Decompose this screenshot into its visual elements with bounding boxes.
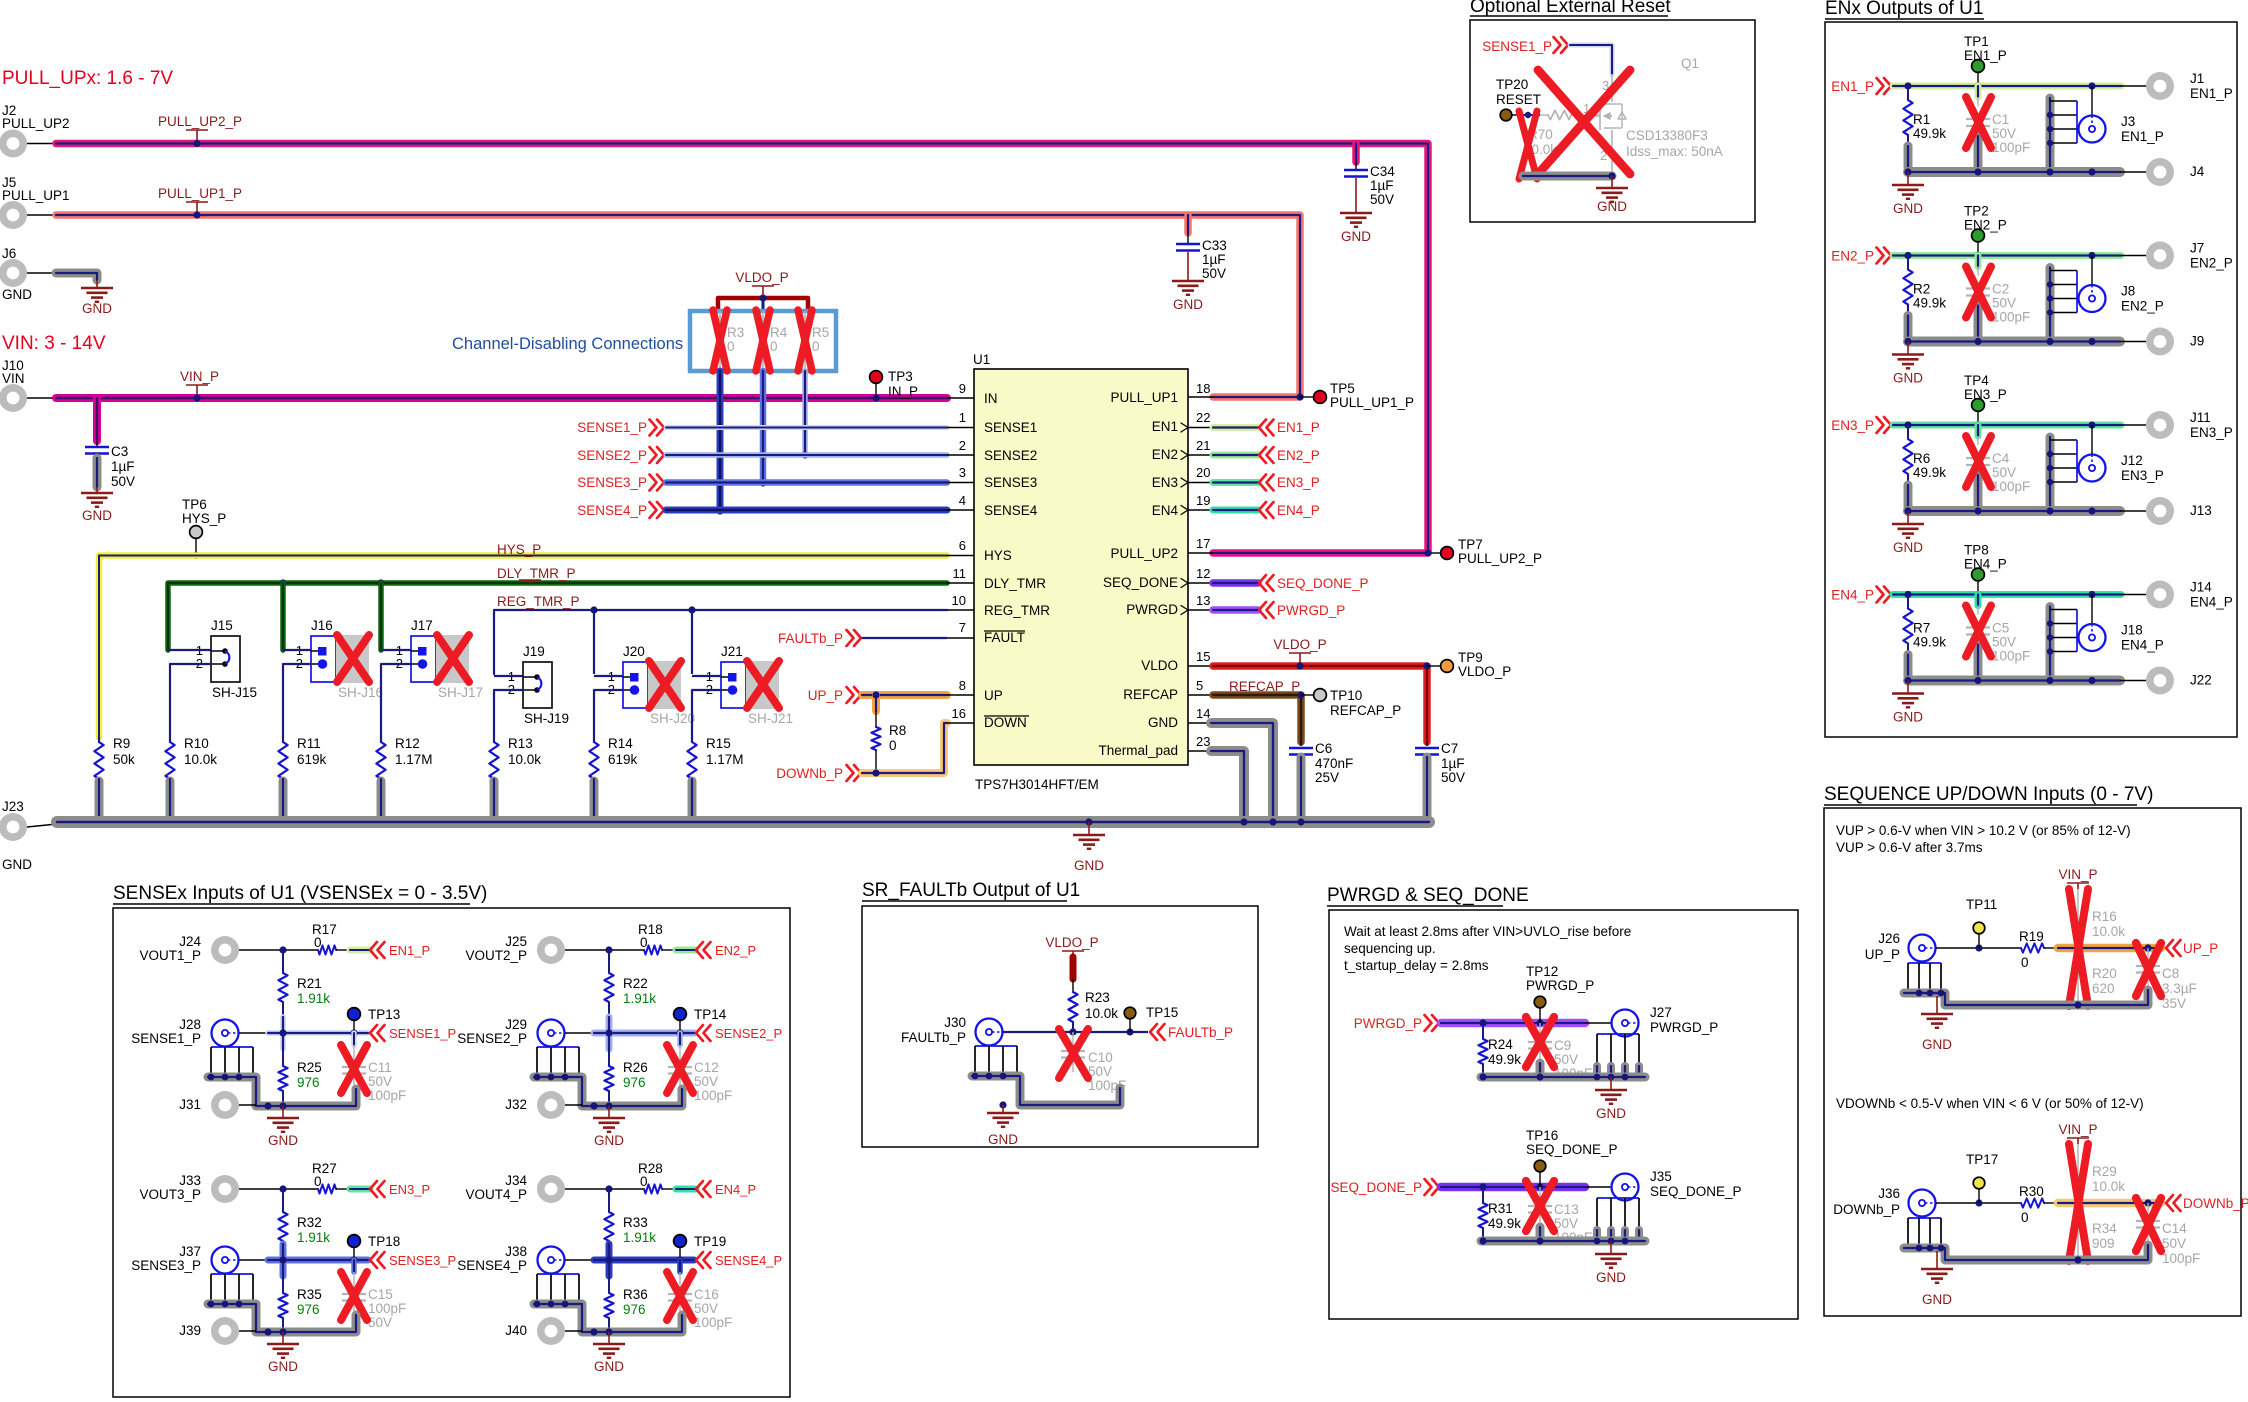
jack J18	[2091, 595, 2093, 625]
svg-text:J22: J22	[2190, 673, 2212, 688]
svg-text:SENSE1_P: SENSE1_P	[1482, 39, 1552, 54]
svg-text:IN_P: IN_P	[888, 384, 918, 399]
svg-text:R14: R14	[608, 736, 633, 751]
svg-text:J7: J7	[2190, 241, 2204, 256]
svg-text:PULL_UP1_P: PULL_UP1_P	[158, 186, 242, 201]
ground symbol on bus	[1088, 822, 1090, 835]
wire SENSE1_P to pin 1	[666, 425, 947, 430]
svg-text:C7: C7	[1441, 741, 1458, 756]
svg-text:R9: R9	[113, 736, 130, 751]
svg-text:3.3µF: 3.3µF	[2162, 981, 2197, 996]
svg-text:J30: J30	[944, 1015, 966, 1030]
svg-text:GND: GND	[1596, 1106, 1626, 1121]
capacitor C4 (not installed)	[1975, 425, 1982, 436]
svg-text:EN3_P: EN3_P	[389, 1182, 430, 1197]
wire J19 pin1 lead	[494, 675, 523, 677]
wire SENSE4_P to pin 4	[666, 507, 947, 514]
wire R4 to SENSE3 node	[760, 371, 767, 483]
svg-text:SENSEx Inputs of U1 (VSENSEx =: SENSEx Inputs of U1 (VSENSEx = 0 - 3.5V)	[113, 883, 487, 904]
wire SENSE4_P node	[565, 1259, 594, 1261]
wire UP_P highlight	[2058, 944, 2161, 953]
svg-text:EN1_P: EN1_P	[389, 943, 430, 958]
wire SENSE2_P node	[565, 1032, 594, 1034]
svg-text:R34: R34	[2092, 1221, 2117, 1236]
svg-text:GND: GND	[1596, 1270, 1626, 1285]
cross mark over C1	[1966, 97, 1991, 148]
test point TP15	[1124, 1007, 1136, 1019]
svg-text:PULL_UP2: PULL_UP2	[2, 116, 70, 131]
wire PWRGD_P row	[1441, 1019, 1585, 1028]
svg-text:SENSE1: SENSE1	[984, 420, 1037, 435]
capacitor C8 (not installed)	[2147, 948, 2149, 964]
svg-text:TP14: TP14	[694, 1007, 727, 1022]
svg-text:C10: C10	[1088, 1050, 1113, 1065]
svg-text:1µF: 1µF	[1370, 178, 1394, 193]
wire J16 pin1 lead	[283, 649, 311, 651]
svg-text:50V: 50V	[2162, 1236, 2186, 1251]
svg-text:SEQ_DONE_P: SEQ_DONE_P	[1650, 1184, 1742, 1199]
svg-text:SENSE2: SENSE2	[984, 448, 1037, 463]
node DLY_TMR to J17	[377, 579, 384, 586]
ground symbol UP_P row	[1936, 996, 1938, 1014]
svg-text:HYS_P: HYS_P	[497, 542, 541, 557]
cross mark over C14	[2136, 1198, 2161, 1251]
wire R12 to ground bus	[377, 781, 386, 818]
U1 DOWN overline	[984, 715, 1029, 717]
resistor R32	[282, 1189, 284, 1212]
svg-text:R2: R2	[1913, 282, 1930, 297]
wire J15 pin1 lead	[168, 649, 211, 651]
svg-text:EN2_P: EN2_P	[715, 943, 756, 958]
svg-text:1µF: 1µF	[1441, 756, 1465, 771]
wire VIN_P	[56, 394, 947, 402]
capacitor C14 (not installed)	[2147, 1203, 2149, 1219]
svg-text:GND: GND	[1597, 199, 1627, 214]
wire EN2_P highlight	[676, 947, 696, 954]
svg-text:25V: 25V	[1315, 770, 1339, 785]
svg-text:0: 0	[2021, 1210, 2029, 1225]
wire SENSE3_P node	[239, 1259, 268, 1261]
wire VOUT2_P output node	[565, 949, 644, 951]
svg-text:TP10: TP10	[1330, 688, 1362, 703]
svg-text:SR_FAULTb Output of U1: SR_FAULTb Output of U1	[862, 880, 1080, 901]
wire DOWNb_P node	[1936, 1202, 2021, 1204]
svg-text:SH-J15: SH-J15	[212, 685, 257, 700]
row ground bus SEQ_DONE_P	[1481, 1237, 1645, 1246]
svg-text:PWRGD_P: PWRGD_P	[1354, 1016, 1422, 1031]
resistor R21	[282, 950, 284, 973]
svg-text:EN2_P: EN2_P	[2121, 299, 2164, 314]
svg-text:100pF: 100pF	[1992, 310, 2030, 325]
wire PWRGD_P from pin 13	[1188, 609, 1213, 611]
ground symbol FAULTb cell	[1002, 1105, 1004, 1113]
svg-text:100pF: 100pF	[694, 1088, 732, 1103]
wire VLDO_P stub to R23	[1070, 957, 1077, 979]
ground for C33	[1172, 280, 1204, 283]
capacitor C16 (not installed)	[677, 1260, 683, 1272]
svg-text:J21: J21	[721, 644, 743, 659]
wire R10 to ground bus	[166, 781, 175, 818]
wire R9 to ground bus	[95, 781, 104, 818]
svg-text:TP6: TP6	[182, 497, 207, 512]
wire J21 pin2 to R15	[692, 690, 721, 737]
ground path SENSE3_P cell	[208, 1304, 356, 1332]
jack J35	[1612, 1174, 1639, 1201]
svg-text:J31: J31	[179, 1097, 201, 1112]
svg-text:R30: R30	[2019, 1184, 2044, 1199]
svg-text:50V: 50V	[1992, 126, 2016, 141]
svg-text:620: 620	[2092, 981, 2115, 996]
svg-text:HYS: HYS	[984, 548, 1012, 563]
svg-text:8: 8	[959, 678, 966, 693]
svg-text:R24: R24	[1488, 1037, 1513, 1052]
ground symbol row EN2_P	[1907, 342, 1909, 355]
cross mark over C8	[2136, 943, 2161, 996]
ground in reset box	[1611, 176, 1613, 188]
jack J36 shield	[1908, 1217, 1941, 1219]
node DLY_TMR to J16	[279, 579, 286, 586]
capacitor C1 (not installed)	[1975, 86, 1982, 97]
jack J28 shield	[211, 1046, 253, 1048]
svg-text:49.9k: 49.9k	[1913, 635, 1946, 650]
svg-text:J4: J4	[2190, 164, 2205, 179]
svg-text:R36: R36	[623, 1287, 648, 1302]
svg-text:C9: C9	[1554, 1038, 1571, 1053]
svg-text:C12: C12	[694, 1060, 719, 1075]
svg-text:R21: R21	[297, 976, 322, 991]
svg-text:J28: J28	[179, 1017, 201, 1032]
svg-text:HYS_P: HYS_P	[182, 511, 226, 526]
svg-text:UP_P: UP_P	[1865, 947, 1900, 962]
svg-text:GND: GND	[594, 1133, 624, 1148]
wire PULL_UP1_P	[56, 215, 1300, 397]
svg-text:R1: R1	[1913, 112, 1930, 127]
ground path SENSE1_P cell	[208, 1077, 356, 1106]
svg-text:1.91k: 1.91k	[297, 991, 330, 1006]
svg-text:SEQ_DONE_P: SEQ_DONE_P	[1526, 1142, 1618, 1157]
svg-text:J39: J39	[179, 1323, 201, 1338]
svg-text:C33: C33	[1202, 238, 1227, 253]
svg-text:SENSE1_P: SENSE1_P	[131, 1031, 201, 1046]
svg-text:1.91k: 1.91k	[297, 1230, 330, 1245]
svg-text:50V: 50V	[694, 1074, 718, 1089]
svg-text:R3: R3	[727, 325, 744, 340]
svg-text:1.17M: 1.17M	[395, 752, 433, 767]
wire pin17 PULL_UP2	[1188, 552, 1213, 554]
svg-text:EN4_P: EN4_P	[2190, 595, 2233, 610]
ground symbol SEQ_DONE_P row	[1610, 1241, 1612, 1254]
svg-text:TP18: TP18	[368, 1234, 400, 1249]
resistor R18	[644, 945, 662, 954]
svg-text:J16: J16	[311, 618, 333, 633]
svg-text:J36: J36	[1878, 1186, 1900, 1201]
node C33 tap on PULL_UP1_P	[1184, 211, 1191, 218]
svg-text:VIN: 3 - 14V: VIN: 3 - 14V	[2, 333, 106, 354]
svg-text:100pF: 100pF	[694, 1315, 732, 1330]
svg-text:R13: R13	[508, 736, 533, 751]
svg-text:0: 0	[770, 339, 778, 354]
shunt SH-J21 crossed out	[746, 661, 779, 709]
svg-text:0: 0	[812, 339, 820, 354]
svg-text:UP_P: UP_P	[2183, 941, 2218, 956]
svg-text:PULL_UP1: PULL_UP1	[2, 188, 70, 203]
transistor Q1 CSD13380F3 (not installed)	[1611, 74, 1613, 102]
svg-text:100pF: 100pF	[1992, 479, 2030, 494]
wire REG_TMR_P	[494, 610, 947, 674]
ground symbol SENSE4_P cell	[608, 1332, 610, 1344]
svg-text:49.9k: 49.9k	[1913, 296, 1946, 311]
svg-text:TP17: TP17	[1966, 1152, 1998, 1167]
svg-text:J15: J15	[211, 618, 233, 633]
jack J12 shield pins	[2046, 437, 2055, 507]
svg-text:UP: UP	[984, 688, 1003, 703]
wire EN3_P highlight	[350, 1186, 370, 1193]
svg-text:EN3_P: EN3_P	[2121, 468, 2164, 483]
svg-text:50V: 50V	[1554, 1052, 1578, 1067]
svg-text:6: 6	[959, 538, 966, 553]
node C34 tap on PULL_UP2_P	[1352, 140, 1359, 147]
svg-text:J35: J35	[1650, 1169, 1672, 1184]
svg-text:10.0k: 10.0k	[2092, 924, 2125, 939]
svg-text:DOWN: DOWN	[984, 715, 1027, 730]
svg-text:PULL_UP1: PULL_UP1	[1110, 390, 1178, 405]
svg-text:J29: J29	[505, 1017, 527, 1032]
wire J19 pin2 to R13	[494, 690, 523, 737]
svg-text:EN2_P: EN2_P	[1831, 249, 1874, 264]
svg-text:J18: J18	[2121, 623, 2143, 638]
capacitor C13 (not installed)	[1539, 1187, 1541, 1204]
svg-text:R15: R15	[706, 736, 731, 751]
svg-text:EN4_P: EN4_P	[2121, 638, 2164, 653]
svg-text:1.17M: 1.17M	[706, 752, 744, 767]
connector J7	[2146, 242, 2174, 270]
svg-text:PULL_UP1_P: PULL_UP1_P	[1330, 395, 1414, 410]
row ground bus PWRGD_P	[1481, 1073, 1645, 1082]
svg-text:50V: 50V	[111, 474, 135, 489]
svg-text:GND: GND	[1893, 371, 1923, 386]
resistor R1	[1907, 86, 1909, 100]
svg-text:Q1: Q1	[1681, 56, 1699, 71]
svg-text:EN3_P: EN3_P	[1277, 475, 1320, 490]
svg-text:R10: R10	[184, 736, 209, 751]
svg-text:Thermal_pad: Thermal_pad	[1098, 743, 1178, 758]
wire DLY_TMR to J17 pin1	[378, 583, 384, 650]
ground symbol DOWNb_P row	[1936, 1251, 1938, 1269]
frame around R3 R4 R5	[690, 311, 836, 371]
wire VOUT1_P output node	[239, 949, 318, 951]
svg-text:619k: 619k	[297, 752, 327, 767]
svg-text:976: 976	[623, 1075, 646, 1090]
wire SEQ_DONE_P row	[1441, 1183, 1585, 1192]
svg-text:TP3: TP3	[888, 369, 913, 384]
svg-text:EN2: EN2	[1152, 447, 1178, 462]
shunt SH-J16 crossed out	[336, 635, 369, 683]
svg-text:SH-J20: SH-J20	[650, 711, 695, 726]
svg-text:sequencing up.: sequencing up.	[1344, 941, 1436, 956]
svg-text:10.0k: 10.0k	[184, 752, 217, 767]
svg-text:VUP > 0.6-V after 3.7ms: VUP > 0.6-V after 3.7ms	[1836, 840, 1983, 855]
wire DOWNb_P highlight	[2058, 1199, 2161, 1208]
svg-text:ENx Outputs of U1: ENx Outputs of U1	[1825, 0, 1983, 19]
svg-text:9: 9	[959, 381, 966, 396]
svg-text:EN1_P: EN1_P	[1831, 79, 1874, 94]
test point TP10	[1297, 691, 1304, 698]
svg-text:R19: R19	[2019, 929, 2044, 944]
cross mark over C13	[1526, 1181, 1554, 1231]
resistor R27	[318, 1184, 336, 1193]
resistor R25	[282, 1033, 284, 1066]
svg-text:J38: J38	[505, 1244, 527, 1259]
wire pin18 PULL_UP1	[1188, 396, 1213, 398]
svg-text:EN1_P: EN1_P	[2190, 86, 2233, 101]
svg-text:11: 11	[953, 566, 967, 581]
wire HYS_P	[99, 556, 947, 738]
svg-text:C13: C13	[1554, 1202, 1579, 1217]
svg-text:VUP > 0.6-V when VIN > 10.2 V: VUP > 0.6-V when VIN > 10.2 V (or 85% of…	[1836, 823, 2131, 838]
svg-text:SENSE1_P: SENSE1_P	[577, 420, 647, 435]
capacitor C15 (not installed)	[351, 1260, 357, 1272]
resistor R20 (not installed)	[2077, 948, 2079, 1005]
svg-text:VIN_P: VIN_P	[2058, 1122, 2097, 1137]
jack J30 shield	[975, 1045, 1017, 1047]
svg-text:REG_TMR: REG_TMR	[984, 603, 1050, 618]
svg-text:SENSE4: SENSE4	[984, 503, 1038, 518]
svg-text:50k: 50k	[113, 752, 135, 767]
ground path FAULTb cell	[972, 1076, 1120, 1105]
svg-text:VOUT1_P: VOUT1_P	[139, 948, 201, 963]
resistor R36	[608, 1260, 610, 1293]
wire DOWNb_P to pin 16	[862, 723, 947, 773]
IC U1 TPS7H3014HFT/EM body	[974, 369, 1188, 765]
svg-text:J19: J19	[523, 644, 545, 659]
resistor R70 (not installed)	[1540, 114, 1548, 116]
row ground bus EN4_P	[1908, 676, 2120, 686]
svg-text:50V: 50V	[1202, 266, 1226, 281]
wire SENSE3_P to pin 3	[666, 479, 947, 486]
svg-text:470nF: 470nF	[1315, 756, 1353, 771]
wire EN4_P from pin 19	[1188, 509, 1213, 511]
svg-text:20: 20	[1196, 465, 1210, 480]
jack J27	[1612, 1010, 1639, 1037]
wire UP_P down to R8	[872, 695, 880, 711]
svg-text:SH-J17: SH-J17	[438, 685, 483, 700]
svg-text:FAULTb_P: FAULTb_P	[778, 631, 843, 646]
svg-text:TP13: TP13	[368, 1007, 400, 1022]
test point TP11	[1973, 922, 1985, 934]
resistor R11	[282, 737, 284, 742]
svg-text:SEQ_DONE_P: SEQ_DONE_P	[1277, 576, 1369, 591]
svg-text:Idss_max: 50nA: Idss_max: 50nA	[1626, 144, 1723, 159]
svg-text:7: 7	[959, 620, 966, 635]
cross mark over C11	[341, 1045, 367, 1093]
jack J37 shield	[211, 1273, 253, 1275]
svg-text:R12: R12	[395, 736, 420, 751]
wire EN1_P highlight	[350, 947, 370, 954]
svg-text:C14: C14	[2162, 1221, 2187, 1236]
wire UP_P node	[1936, 947, 2021, 949]
svg-text:EN2_P: EN2_P	[1964, 218, 2007, 233]
resistor R15	[691, 737, 693, 742]
svg-text:1.91k: 1.91k	[623, 1230, 656, 1245]
resistor R17	[318, 945, 336, 954]
svg-text:TPS7H3014HFT/EM: TPS7H3014HFT/EM	[975, 777, 1099, 792]
wire J17 pin2 to R12	[381, 664, 411, 737]
wire EN2_P row	[1893, 252, 2121, 259]
svg-text:SENSE4_P: SENSE4_P	[577, 503, 647, 518]
svg-text:1µF: 1µF	[111, 459, 135, 474]
resistor R6	[1907, 425, 1909, 439]
U1 output markers on EN and status pins	[1181, 423, 1188, 432]
test point TP17	[1973, 1177, 1985, 1189]
svg-text:GND: GND	[2, 857, 32, 872]
svg-text:TP7: TP7	[1458, 537, 1483, 552]
svg-text:J25: J25	[505, 934, 527, 949]
ground symbol SENSE2_P cell	[608, 1106, 610, 1118]
wire SENSE2_P to pin 2	[666, 452, 947, 458]
wire J15 pin2 to R10	[170, 664, 211, 737]
svg-text:GND: GND	[268, 1133, 298, 1148]
resistor R26	[608, 1033, 610, 1066]
resistor R24	[1482, 1023, 1484, 1039]
svg-text:R35: R35	[297, 1287, 322, 1302]
svg-text:0: 0	[640, 1174, 648, 1189]
svg-text:J13: J13	[2190, 503, 2212, 518]
svg-text:C2: C2	[1992, 282, 2009, 297]
ground for C3	[81, 492, 113, 495]
svg-text:RESET: RESET	[1496, 92, 1541, 107]
capacitor C34	[1352, 144, 1360, 163]
connector J11	[2146, 411, 2174, 439]
svg-text:SENSE1_P: SENSE1_P	[389, 1026, 456, 1041]
row ground bus EN2_P	[1908, 337, 2120, 347]
wire R11 to ground bus	[279, 781, 288, 818]
svg-text:GND: GND	[1893, 540, 1923, 555]
cross mark over C12	[667, 1045, 693, 1093]
wire J6 to ground	[56, 273, 97, 280]
capacitor C33	[1184, 215, 1192, 233]
connector J1	[2146, 72, 2174, 100]
svg-text:SENSE2_P: SENSE2_P	[457, 1031, 527, 1046]
svg-text:GND: GND	[1922, 1037, 1952, 1052]
svg-text:VLDO: VLDO	[1141, 658, 1178, 673]
svg-text:TP9: TP9	[1458, 650, 1483, 665]
svg-text:DOWNb_P: DOWNb_P	[2183, 1196, 2248, 1211]
wire R13 to ground bus	[490, 781, 499, 818]
svg-text:50V: 50V	[694, 1301, 718, 1316]
svg-text:PULL_UP2_P: PULL_UP2_P	[1458, 551, 1542, 566]
wire DLY_TMR to J16 pin1	[280, 583, 286, 650]
svg-text:16: 16	[952, 706, 966, 721]
capacitor C6	[1300, 742, 1302, 746]
svg-text:FAULTb_P: FAULTb_P	[1168, 1025, 1233, 1040]
svg-text:R33: R33	[623, 1215, 648, 1230]
svg-text:10.0k: 10.0k	[2092, 1179, 2125, 1194]
svg-text:C8: C8	[2162, 966, 2179, 981]
test point TP9	[1423, 662, 1430, 669]
svg-text:EN3_P: EN3_P	[1964, 387, 2007, 402]
svg-text:SENSE4_P: SENSE4_P	[457, 1258, 527, 1273]
svg-text:R4: R4	[770, 325, 788, 340]
svg-text:R20: R20	[2092, 966, 2117, 981]
resistor R7	[1907, 595, 1909, 609]
svg-text:35V: 35V	[2162, 996, 2186, 1011]
ground at J6	[81, 287, 113, 290]
svg-text:R5: R5	[812, 325, 829, 340]
connector J9	[2146, 328, 2174, 356]
capacitor C9 (not installed)	[1539, 1023, 1541, 1040]
svg-text:VOUT2_P: VOUT2_P	[465, 948, 527, 963]
wire EN3_P from pin 20	[1188, 482, 1213, 484]
